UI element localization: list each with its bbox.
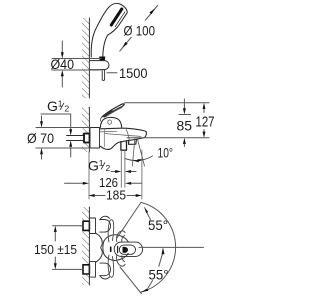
svg-text:G: G bbox=[88, 157, 99, 173]
svg-text:2: 2 bbox=[65, 104, 70, 114]
svg-text:Ø 70: Ø 70 bbox=[27, 130, 54, 146]
svg-text:127: 127 bbox=[196, 115, 215, 131]
svg-text:2: 2 bbox=[106, 163, 111, 173]
svg-text:10°: 10° bbox=[158, 145, 174, 160]
svg-text:85: 85 bbox=[177, 117, 193, 133]
svg-text:55°: 55° bbox=[149, 267, 169, 282]
svg-text:55°: 55° bbox=[148, 218, 168, 233]
svg-text:G: G bbox=[47, 98, 58, 114]
svg-text:Ø 100: Ø 100 bbox=[124, 23, 156, 39]
svg-text:150 ±15: 150 ±15 bbox=[34, 242, 77, 257]
svg-text:Ø40: Ø40 bbox=[51, 57, 75, 72]
svg-text:1500: 1500 bbox=[119, 66, 148, 81]
svg-text:185: 185 bbox=[106, 188, 126, 203]
